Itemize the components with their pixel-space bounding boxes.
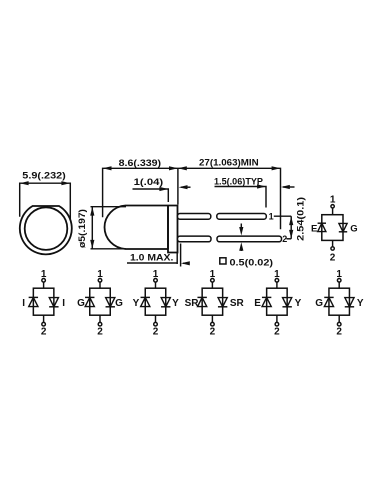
svg-text:G: G (350, 224, 357, 235)
svg-text:Y: Y (357, 298, 364, 309)
arrowhead left 8.6 (103, 166, 112, 170)
2.54 arrowheads (289, 216, 293, 225)
pin 1 wire (338, 282, 340, 288)
pin 2 wire (211, 315, 213, 322)
svg-text:1: 1 (269, 211, 274, 221)
bicolor LED symbol Y/Y (133, 269, 180, 337)
svg-text:2: 2 (41, 326, 47, 337)
ø5 arrowheads (90, 207, 94, 216)
ø5 dimension line (91, 207, 93, 249)
symbol box (322, 215, 343, 241)
svg-text:5.9(.232): 5.9(.232) (22, 171, 65, 181)
arrow 1(.04) pointing left at flange face (181, 186, 191, 188)
pin 1 circle (331, 205, 334, 208)
symbol box (33, 288, 54, 315)
left diode up (I) (29, 296, 38, 298)
LED body front view with dome (105, 206, 168, 250)
pin 1 circle (337, 279, 341, 283)
dimension line 5.9 with witness legs (20, 183, 71, 220)
pin 2 wire (99, 315, 101, 322)
dimension line 8.6 and 27 with witness legs (103, 168, 281, 229)
arrowhead left 27 (178, 166, 187, 170)
pin 2 wire (43, 315, 45, 322)
left diode up (SR) (197, 296, 206, 298)
witness line flange face (177, 168, 179, 204)
pin 1 wire (332, 208, 334, 215)
pin 2 circle (275, 322, 279, 326)
pin 2 circle (42, 322, 46, 326)
symbol box (267, 288, 288, 315)
extension line from pin 1 (274, 215, 291, 217)
LED flange front view (168, 206, 178, 253)
left diode up (Y) (141, 296, 150, 298)
arrow 1.0 MAX pointing left (183, 262, 189, 264)
svg-text:I: I (22, 298, 25, 309)
bicolor LED symbol SR/SR (185, 269, 245, 337)
ø5 witness lines (91, 206, 127, 208)
pin 2 wire (155, 315, 157, 322)
svg-text:2: 2 (97, 326, 103, 337)
bicolor LED symbol E/G top-right (311, 195, 358, 264)
svg-text:2: 2 (336, 326, 342, 337)
svg-text:G: G (115, 298, 123, 309)
svg-text:2: 2 (330, 253, 336, 264)
right diode down (G) (106, 306, 115, 308)
extension line lead exit down (180, 244, 182, 267)
svg-text:Y: Y (295, 298, 302, 309)
svg-text:E: E (254, 298, 261, 309)
svg-text:ø5(.197): ø5(.197) (77, 209, 87, 248)
arrow 1.5 TYP pointing left at end witness (283, 186, 295, 188)
LED body/flange boundary (167, 206, 169, 250)
svg-text:G: G (315, 298, 323, 309)
pin 2 circle (211, 322, 215, 326)
svg-text:0.5(0.02): 0.5(0.02) (230, 257, 274, 268)
pin 1 wire (276, 282, 278, 288)
left diode up (G) (85, 296, 94, 298)
svg-text:G: G (77, 298, 85, 309)
bicolor LED symbol I/I (22, 269, 65, 337)
bicolor LED symbol E/Y (254, 269, 301, 337)
dimension line 2.54 vertical (290, 216, 292, 239)
leader 1.5 TYP with corner down to lead tip (215, 187, 267, 208)
symbol box (145, 288, 166, 315)
lead 1 segment 1 (178, 214, 211, 220)
pin 1 circle (275, 279, 279, 283)
right diode down (Y) (161, 306, 170, 308)
pin 1 circle (211, 279, 215, 283)
right diode down (I) (49, 306, 58, 308)
arrowhead right 8.6 (169, 166, 178, 170)
arrowhead 1.5 TYP right-pointing at corner (257, 184, 266, 188)
svg-text:2: 2 (153, 326, 159, 337)
svg-text:27(1.063)MIN: 27(1.063)MIN (199, 158, 259, 168)
arrowhead 1(.04) right-pointing at corner (159, 187, 168, 191)
right diode down (Y) (345, 306, 354, 308)
leader 1(.04) with corner down to flange (133, 189, 169, 202)
LED top view outer flange circle with flat (20, 206, 72, 254)
square symbol for lead cross-section (220, 258, 226, 264)
pin 1 wire (99, 282, 101, 288)
left diode up (G) (324, 296, 333, 298)
lead 1 segment 2 (217, 214, 266, 220)
right diode down (Y) (282, 306, 291, 308)
left diode up (E) (262, 296, 271, 298)
pin 2 circle (98, 322, 102, 326)
pin 1 circle (154, 279, 158, 283)
symbol box (329, 288, 350, 315)
lead thickness arrow upper (pointing down) (240, 224, 242, 232)
svg-text:2: 2 (210, 326, 216, 337)
svg-text:Y: Y (133, 298, 140, 309)
svg-text:1.5(.06)TYP: 1.5(.06)TYP (214, 176, 263, 186)
svg-text:SR: SR (185, 298, 200, 309)
lead 2 segment 1 (178, 236, 212, 242)
pin 2 wire (332, 240, 334, 246)
svg-text:1.0 MAX.: 1.0 MAX. (130, 253, 173, 263)
svg-text:2.54(0.1): 2.54(0.1) (296, 197, 306, 241)
pin 1 wire (43, 282, 45, 288)
extension line from pin 2 (287, 238, 292, 240)
svg-text:Y: Y (172, 298, 179, 309)
svg-text:SR: SR (230, 298, 245, 309)
symbol box (202, 288, 223, 315)
pin 1 circle (42, 279, 46, 283)
extension line flange face down (176, 253, 178, 265)
arrowhead right 27 (272, 166, 281, 170)
arrowhead right 5.9 (61, 181, 70, 185)
pin 2 wire (276, 315, 278, 322)
svg-text:I: I (62, 298, 65, 309)
LED top view inner circle (25, 207, 68, 250)
bicolor LED symbol G/Y (315, 269, 364, 337)
svg-text:8.6(.339): 8.6(.339) (119, 158, 162, 168)
right diode down (G) (339, 231, 347, 233)
pin 1 circle (98, 279, 102, 283)
pin 1 wire (155, 282, 157, 288)
left diode up (E) (318, 222, 326, 224)
right diode down (SR) (218, 306, 227, 308)
pin 2 circle (337, 322, 341, 326)
leader line 1.0 MAX underline (127, 262, 177, 264)
pin 2 circle (154, 322, 158, 326)
pin 2 circle (331, 247, 334, 250)
bicolor LED symbol G/G (77, 269, 123, 337)
lead thickness arrow lower (pointing up) (240, 246, 242, 251)
svg-text:E: E (311, 224, 317, 235)
svg-text:1(.04): 1(.04) (134, 177, 164, 187)
arrowhead left 5.9 (20, 181, 29, 185)
svg-text:2: 2 (274, 326, 280, 337)
pin 2 wire (338, 315, 340, 322)
svg-text:2: 2 (282, 234, 287, 244)
lead 2 segment 2 (217, 236, 282, 242)
pin 1 wire (211, 282, 213, 288)
symbol box (90, 288, 111, 315)
